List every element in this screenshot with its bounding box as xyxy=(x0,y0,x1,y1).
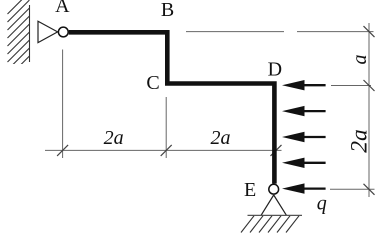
svg-text:C: C xyxy=(146,72,159,94)
svg-text:A: A xyxy=(55,0,70,17)
svg-text:2a: 2a xyxy=(104,127,124,149)
svg-text:E: E xyxy=(244,179,256,201)
svg-text:q: q xyxy=(317,193,327,215)
svg-text:a: a xyxy=(349,55,371,65)
svg-text:2a: 2a xyxy=(347,129,373,153)
svg-text:2a: 2a xyxy=(211,127,231,149)
svg-text:D: D xyxy=(268,58,282,80)
svg-text:B: B xyxy=(161,0,174,21)
